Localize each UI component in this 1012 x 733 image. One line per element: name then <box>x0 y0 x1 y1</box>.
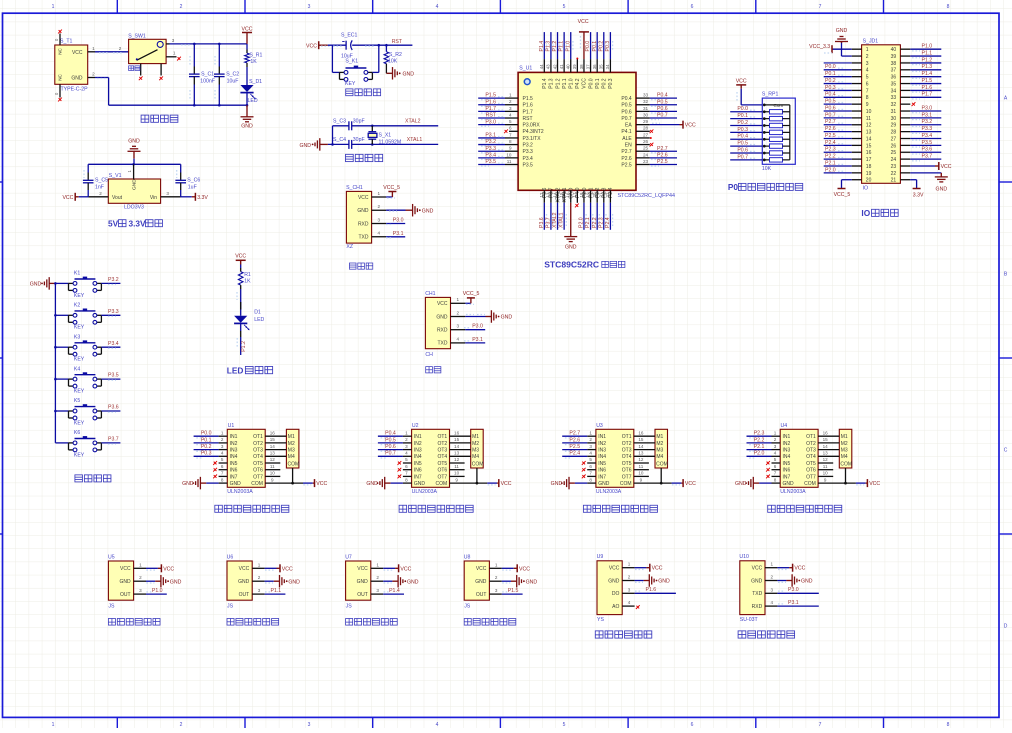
svg-text:IN3: IN3 <box>414 448 422 454</box>
wire XTAL2 net <box>352 119 439 128</box>
svg-text:GND: GND <box>403 71 415 77</box>
svg-text:26: 26 <box>891 143 897 149</box>
caption IR module U7 <box>345 554 383 609</box>
svg-text:P3.6: P3.6 <box>108 405 119 411</box>
svg-text:P0.6: P0.6 <box>621 109 632 115</box>
svg-text:P0.0: P0.0 <box>825 64 836 70</box>
svg-text:P3.5: P3.5 <box>108 373 119 379</box>
svg-text:40: 40 <box>566 64 571 69</box>
svg-text:9: 9 <box>824 477 827 482</box>
svg-text:IN6: IN6 <box>230 468 238 474</box>
svg-text:OT1: OT1 <box>806 434 816 440</box>
svg-text:6: 6 <box>691 722 694 728</box>
svg-text:100nF: 100nF <box>200 79 215 85</box>
svg-text:29: 29 <box>891 123 897 129</box>
svg-text:P3.7: P3.7 <box>108 437 119 443</box>
MCU right pin 24 P2.6 <box>621 152 677 162</box>
resistor S_R2 10K <box>384 45 402 73</box>
caption MCU <box>544 259 625 269</box>
svg-text:M1: M1 <box>472 434 479 440</box>
svg-text:CH: CH <box>425 352 433 358</box>
svg-text:COM: COM <box>840 462 852 468</box>
svg-text:10: 10 <box>823 471 829 476</box>
svg-text:M2: M2 <box>841 441 848 447</box>
svg-text:2: 2 <box>258 575 261 580</box>
svg-text:P0.1: P0.1 <box>595 78 601 89</box>
svg-text:4: 4 <box>771 600 774 605</box>
svg-text:RST: RST <box>523 116 533 122</box>
MCU bottom pin 16 GND <box>566 187 575 236</box>
no-ERC marker T1 top pin <box>58 30 62 34</box>
svg-text:5: 5 <box>563 722 566 728</box>
wire net P0.5 to RP1 <box>730 141 762 147</box>
no-ERC marker SW1 bottom pin B <box>159 76 163 80</box>
svg-text:P2.4: P2.4 <box>825 140 836 146</box>
svg-text:P0.0: P0.0 <box>201 431 212 437</box>
svg-text:4: 4 <box>457 337 460 342</box>
MCU bottom pin 19 P2.1 <box>585 187 594 229</box>
svg-text:1: 1 <box>457 297 460 302</box>
MCU top pin 34 P0.3 <box>605 32 614 89</box>
svg-text:P0.2: P0.2 <box>602 78 608 89</box>
capacitor S_C2 10uF <box>214 44 239 105</box>
svg-text:VCC: VCC <box>582 78 588 89</box>
svg-text:IN6: IN6 <box>598 468 606 474</box>
svg-text:16: 16 <box>566 192 571 197</box>
power port VCC_5 serial <box>463 291 480 304</box>
wire net P0.7 JD1 pin11 <box>824 112 852 118</box>
svg-text:1: 1 <box>173 50 176 55</box>
wire net P1.4 JD1 pin36 <box>910 71 941 78</box>
capacitor S_C1 100nF <box>189 44 215 105</box>
svg-text:U7: U7 <box>345 554 352 560</box>
svg-text:10: 10 <box>506 152 512 157</box>
svg-text:7: 7 <box>509 132 512 137</box>
svg-text:GND: GND <box>128 139 140 145</box>
svg-text:11: 11 <box>639 464 644 469</box>
svg-text:P1.5: P1.5 <box>523 96 534 102</box>
svg-text:7: 7 <box>774 471 777 476</box>
svg-text:1: 1 <box>866 47 869 53</box>
svg-text:32: 32 <box>891 102 897 108</box>
svg-text:7: 7 <box>405 471 408 476</box>
svg-text:20: 20 <box>592 192 597 197</box>
svg-text:P2.6: P2.6 <box>657 152 668 158</box>
svg-text:JS: JS <box>346 603 353 609</box>
svg-text:P1.3: P1.3 <box>546 41 552 52</box>
svg-text:M3: M3 <box>472 448 479 454</box>
svg-text:42: 42 <box>552 64 557 69</box>
svg-text:11: 11 <box>454 464 459 469</box>
MCU bottom pin 17 P4.0 <box>572 187 581 207</box>
svg-text:XTAL2: XTAL2 <box>405 119 421 125</box>
svg-text:S_C6: S_C6 <box>187 178 200 184</box>
caption stepper motor U3 <box>587 423 634 495</box>
ground symbol power circuit <box>241 105 254 129</box>
svg-text:3: 3 <box>221 444 224 449</box>
svg-text:K2: K2 <box>74 303 80 309</box>
connector S_T1 TYPE-C-2P <box>54 34 88 98</box>
svg-text:GND: GND <box>422 208 434 214</box>
svg-text:1: 1 <box>92 46 95 51</box>
svg-text:P3.5: P3.5 <box>523 162 534 168</box>
svg-text:OT7: OT7 <box>622 474 632 480</box>
svg-text:3: 3 <box>376 588 379 593</box>
svg-text:33: 33 <box>891 95 897 101</box>
svg-text:OT3: OT3 <box>806 448 816 454</box>
MCU top pin 42 P1.2 <box>552 32 561 89</box>
svg-text:GND: GND <box>414 481 426 487</box>
capacitor S_EC1 10uF polarized <box>341 32 358 59</box>
svg-text:COM: COM <box>472 462 484 468</box>
wire net P2.0 JD1 pin19 <box>824 167 852 173</box>
junction dots power rails <box>193 43 248 107</box>
svg-text:P3.2: P3.2 <box>485 139 496 145</box>
svg-text:GND: GND <box>230 481 242 487</box>
svg-text:3: 3 <box>308 4 311 10</box>
wire T1 VCC to switch <box>88 46 129 53</box>
svg-text:P4.3INT2: P4.3INT2 <box>523 129 544 135</box>
svg-text:KEY: KEY <box>74 420 85 426</box>
svg-text:38: 38 <box>579 64 584 69</box>
svg-text:P0.4: P0.4 <box>657 93 668 99</box>
wire net P2.6 JD1 pin13 <box>824 126 852 132</box>
svg-text:GND: GND <box>71 76 83 82</box>
svg-text:12: 12 <box>539 192 544 197</box>
svg-text:P3.3: P3.3 <box>485 146 496 152</box>
svg-text:RXD: RXD <box>437 328 448 334</box>
wire net P3.1 U10 RXD <box>777 600 818 606</box>
svg-text:M1: M1 <box>656 434 663 440</box>
svg-text:P1.0: P1.0 <box>152 588 163 594</box>
svg-text:GND: GND <box>783 481 795 487</box>
svg-text:13: 13 <box>270 451 276 456</box>
svg-text:16: 16 <box>823 430 829 435</box>
wire net P1.6 JD1 pin34 <box>910 85 941 92</box>
ground symbol LDO top <box>128 139 141 165</box>
svg-text:OT4: OT4 <box>622 454 632 460</box>
wire net P1.7 JD1 pin33 <box>910 92 941 99</box>
svg-text:S_C1: S_C1 <box>201 72 214 78</box>
svg-text:P1.0: P1.0 <box>922 44 933 50</box>
MCU top pin 41 P1.1 <box>559 32 568 89</box>
svg-text:P2.4: P2.4 <box>605 217 611 228</box>
svg-text:OT4: OT4 <box>437 454 447 460</box>
svg-text:VCC_5: VCC_5 <box>463 291 480 297</box>
svg-text:KEY: KEY <box>74 389 85 395</box>
svg-text:P0.3: P0.3 <box>825 85 836 91</box>
svg-text:GND: GND <box>182 481 194 487</box>
MCU left pin 2 P1.6 <box>478 99 533 109</box>
svg-text:P0.1: P0.1 <box>592 41 598 52</box>
svg-text:P1.2: P1.2 <box>922 57 933 63</box>
svg-text:VCC: VCC <box>752 566 763 572</box>
svg-text:GND: GND <box>598 481 610 487</box>
ground symbol U9 <box>635 574 670 587</box>
wire net P0.1 to RP1 <box>730 113 762 119</box>
capacitor S_C5 1nF <box>83 164 108 197</box>
ground symbol MCU <box>564 237 577 251</box>
svg-text:P0.3: P0.3 <box>608 78 614 89</box>
caption power circuit <box>141 115 149 122</box>
svg-text:IN5: IN5 <box>230 461 238 467</box>
svg-text:GND: GND <box>299 143 311 149</box>
svg-text:IN2: IN2 <box>598 441 606 447</box>
capacitor S_C6 1uF <box>175 164 200 197</box>
svg-text:36: 36 <box>592 64 597 69</box>
svg-text:10: 10 <box>454 471 460 476</box>
wire net P0.2 to RP1 <box>730 120 762 126</box>
svg-text:P1.1: P1.1 <box>922 50 933 56</box>
svg-text:OT4: OT4 <box>806 454 816 460</box>
svg-text:EA: EA <box>625 123 632 129</box>
svg-text:1K: 1K <box>250 59 257 65</box>
svg-text:12: 12 <box>638 457 644 462</box>
no-ERC marker SW1 pin1 <box>177 57 181 61</box>
svg-text:XTAL1: XTAL1 <box>559 212 565 228</box>
svg-text:U5: U5 <box>108 554 115 560</box>
svg-text:COM: COM <box>251 481 263 487</box>
svg-text:P3.7: P3.7 <box>922 154 933 160</box>
wire net P0.0 to RP1 <box>730 106 762 112</box>
resistor pack S_RP1 10K <box>762 92 795 173</box>
svg-text:4: 4 <box>378 231 381 236</box>
svg-text:3: 3 <box>509 106 512 111</box>
svg-text:P0.0: P0.0 <box>588 78 594 89</box>
svg-text:IN2: IN2 <box>783 441 791 447</box>
svg-text:AO: AO <box>612 604 619 610</box>
voice module U10 body <box>739 554 777 623</box>
wire net P3.0 JD1 pin31 <box>910 105 941 112</box>
svg-text:2: 2 <box>119 46 122 51</box>
svg-text:7: 7 <box>819 4 822 10</box>
svg-text:P2.3: P2.3 <box>754 431 765 437</box>
svg-text:IN4: IN4 <box>783 454 791 460</box>
key K3 <box>55 334 120 362</box>
key K5 <box>55 398 120 426</box>
wire net P1.0 JD1 pin40 <box>910 44 941 51</box>
svg-text:15: 15 <box>866 143 872 149</box>
svg-text:P3.0: P3.0 <box>485 119 496 125</box>
MCU top pin 36 P0.1 <box>592 32 601 89</box>
svg-text:VCC: VCC <box>652 566 663 572</box>
svg-text:P3.3: P3.3 <box>922 126 933 132</box>
svg-text:P0.5: P0.5 <box>621 103 632 109</box>
wire crystal gnd branch <box>328 126 349 146</box>
MCU right pin 31 P0.6 <box>621 106 677 116</box>
svg-text:1: 1 <box>405 430 408 435</box>
svg-text:1: 1 <box>628 562 631 567</box>
svg-text:24: 24 <box>891 157 897 163</box>
svg-text:LED: LED <box>254 317 264 323</box>
svg-text:S_RP1: S_RP1 <box>762 92 779 98</box>
svg-text:D: D <box>1004 624 1008 630</box>
capacitor S_C3 30pF <box>333 119 365 131</box>
svg-text:P3.2: P3.2 <box>108 277 119 283</box>
power port VCC_3.3 JD1 pin1 <box>809 44 852 53</box>
svg-text:20: 20 <box>866 178 872 184</box>
svg-text:2: 2 <box>376 575 379 580</box>
net label RST <box>365 39 403 46</box>
svg-text:P0.7: P0.7 <box>657 113 668 119</box>
svg-text:TXD: TXD <box>438 341 448 347</box>
ground symbol JD1 pin2 <box>835 28 852 56</box>
key K4 <box>55 366 120 394</box>
svg-text:P0.6: P0.6 <box>737 147 748 153</box>
svg-text:COM: COM <box>620 481 632 487</box>
svg-text:35: 35 <box>891 81 897 87</box>
svg-text:IN4: IN4 <box>230 454 238 460</box>
svg-text:9: 9 <box>271 477 274 482</box>
wire net P3.7 JD1 pin24 <box>910 154 941 161</box>
svg-text:30pF: 30pF <box>353 119 365 125</box>
wire net P3.2 JD1 pin29 <box>910 119 941 126</box>
svg-text:S_X1: S_X1 <box>379 132 392 138</box>
svg-text:P2.3: P2.3 <box>825 147 836 153</box>
svg-text:K3: K3 <box>74 334 80 340</box>
svg-text:P1.3: P1.3 <box>922 64 933 70</box>
svg-text:VCC: VCC <box>282 566 293 572</box>
wire net P3.0 serial <box>464 324 485 330</box>
power port VCC U10 <box>777 564 805 572</box>
svg-text:4: 4 <box>405 451 408 456</box>
svg-text:GND: GND <box>288 579 300 585</box>
svg-text:10K: 10K <box>762 166 772 172</box>
svg-text:5: 5 <box>866 75 869 81</box>
svg-text:S_EC1: S_EC1 <box>341 32 358 38</box>
no-ERC marker SW1 bottom pin A <box>139 76 143 80</box>
svg-text:25: 25 <box>891 150 897 156</box>
svg-text:XTAL1: XTAL1 <box>407 137 423 143</box>
svg-text:CH1: CH1 <box>425 291 435 297</box>
caption IO header <box>861 208 898 218</box>
MCU right pin 30 P0.7 <box>621 112 677 122</box>
svg-text:15: 15 <box>270 437 276 442</box>
MCU bottom pin 14 XTAL2 <box>552 187 561 229</box>
svg-text:P0.2: P0.2 <box>737 120 748 126</box>
svg-text:K5: K5 <box>74 398 80 404</box>
svg-text:P0.7: P0.7 <box>825 112 836 118</box>
svg-text:GND: GND <box>735 481 747 487</box>
MCU top pin 43 P1.3 <box>546 32 555 89</box>
svg-text:VCC_3.3: VCC_3.3 <box>809 44 830 50</box>
svg-text:IO: IO <box>861 208 870 218</box>
svg-text:27: 27 <box>643 132 649 137</box>
svg-text:ALE: ALE <box>622 136 632 142</box>
svg-text:14: 14 <box>454 444 460 449</box>
svg-text:P3.0RX: P3.0RX <box>523 123 541 129</box>
wire net P0.6 JD1 pin10 <box>824 105 852 111</box>
svg-text:KEY: KEY <box>74 293 85 299</box>
caption stepper motor U2 <box>403 423 450 495</box>
svg-text:IN3: IN3 <box>230 448 238 454</box>
svg-text:7: 7 <box>819 722 822 728</box>
MCU left pin 6 P4.3INT2 <box>504 126 544 136</box>
svg-text:P3.0: P3.0 <box>472 324 483 330</box>
svg-text:Vout: Vout <box>112 195 123 201</box>
key K6 <box>55 430 120 458</box>
svg-text:34: 34 <box>891 88 897 94</box>
svg-text:9: 9 <box>640 477 643 482</box>
svg-text:M3: M3 <box>656 448 663 454</box>
caption IR module U6 <box>227 554 265 609</box>
wire JD1 pin3 <box>824 62 852 64</box>
svg-text:IN4: IN4 <box>598 454 606 460</box>
svg-text:P2.2: P2.2 <box>825 154 836 160</box>
svg-text:P3.1: P3.1 <box>485 133 496 139</box>
svg-text:VCC: VCC <box>358 195 369 201</box>
svg-text:R1: R1 <box>244 272 251 278</box>
svg-text:8: 8 <box>866 95 869 101</box>
svg-text:4: 4 <box>436 722 439 728</box>
key K1 <box>55 271 120 299</box>
svg-text:1: 1 <box>258 562 261 567</box>
svg-text:P0.1: P0.1 <box>825 71 836 77</box>
svg-text:P3.1: P3.1 <box>922 112 933 118</box>
svg-text:P3.7: P3.7 <box>546 217 552 228</box>
svg-text:ULN2003A: ULN2003A <box>596 489 622 495</box>
svg-text:OUT: OUT <box>476 592 487 598</box>
caption IR module U8 <box>464 554 502 609</box>
svg-text:P0.3: P0.3 <box>737 127 748 133</box>
svg-text:P2.5: P2.5 <box>569 444 580 450</box>
svg-text:1: 1 <box>221 430 224 435</box>
wire net P0.4 to RP1 <box>730 134 762 140</box>
svg-text:U4: U4 <box>781 423 788 429</box>
svg-text:OUT: OUT <box>357 592 368 598</box>
svg-text:P2.5: P2.5 <box>657 159 668 165</box>
ground symbol reset <box>386 67 414 80</box>
svg-text:JS: JS <box>227 603 234 609</box>
svg-text:13: 13 <box>454 451 460 456</box>
svg-text:P1.2: P1.2 <box>552 41 558 52</box>
svg-text:P0.1: P0.1 <box>201 437 212 443</box>
svg-text:P0.2: P0.2 <box>598 41 604 52</box>
svg-text:P3.1: P3.1 <box>472 337 483 343</box>
svg-text:S_R1: S_R1 <box>249 53 262 59</box>
wire net P3.0 U10 TXD <box>777 587 818 593</box>
svg-text:VCC: VCC <box>120 566 131 572</box>
svg-text:P0.4: P0.4 <box>385 431 396 437</box>
svg-text:IN2: IN2 <box>414 441 422 447</box>
svg-text:OT1: OT1 <box>437 434 447 440</box>
svg-text:39: 39 <box>572 64 577 69</box>
svg-text:IN7: IN7 <box>783 474 791 480</box>
MCU right pin 23 P2.5 <box>621 159 677 169</box>
svg-text:P2.7: P2.7 <box>825 119 836 125</box>
svg-text:39: 39 <box>891 54 897 60</box>
svg-text:VCC: VCC <box>736 79 747 85</box>
svg-text:GND: GND <box>357 208 369 214</box>
svg-text:3: 3 <box>457 324 460 329</box>
svg-text:OT4: OT4 <box>253 454 263 460</box>
svg-text:18: 18 <box>866 164 872 170</box>
svg-text:KEY: KEY <box>74 452 85 458</box>
svg-text:P2.2: P2.2 <box>754 437 765 443</box>
svg-text:KEY: KEY <box>74 325 85 331</box>
svg-text:GND: GND <box>526 579 538 585</box>
svg-text:P1.5: P1.5 <box>922 78 933 84</box>
svg-text:P1.3: P1.3 <box>549 78 555 89</box>
svg-text:GND: GND <box>357 579 369 585</box>
svg-text:2: 2 <box>774 437 777 442</box>
wire net P1.3 JD1 pin37 <box>910 64 941 71</box>
MCU bottom pin 21 P2.3 <box>598 187 607 229</box>
svg-text:VCC: VCC <box>306 43 317 49</box>
svg-text:3: 3 <box>258 588 261 593</box>
wire net P1.6 U9 DO <box>635 587 676 593</box>
ground symbol key matrix <box>30 277 56 290</box>
